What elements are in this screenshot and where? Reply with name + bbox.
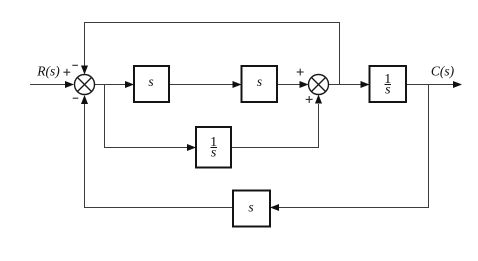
svg-text:s: s (257, 74, 262, 89)
svg-text:s: s (148, 74, 153, 89)
svg-text:s: s (248, 200, 253, 215)
svg-text:C(s): C(s) (431, 64, 455, 79)
svg-text:R(s): R(s) (36, 64, 60, 79)
